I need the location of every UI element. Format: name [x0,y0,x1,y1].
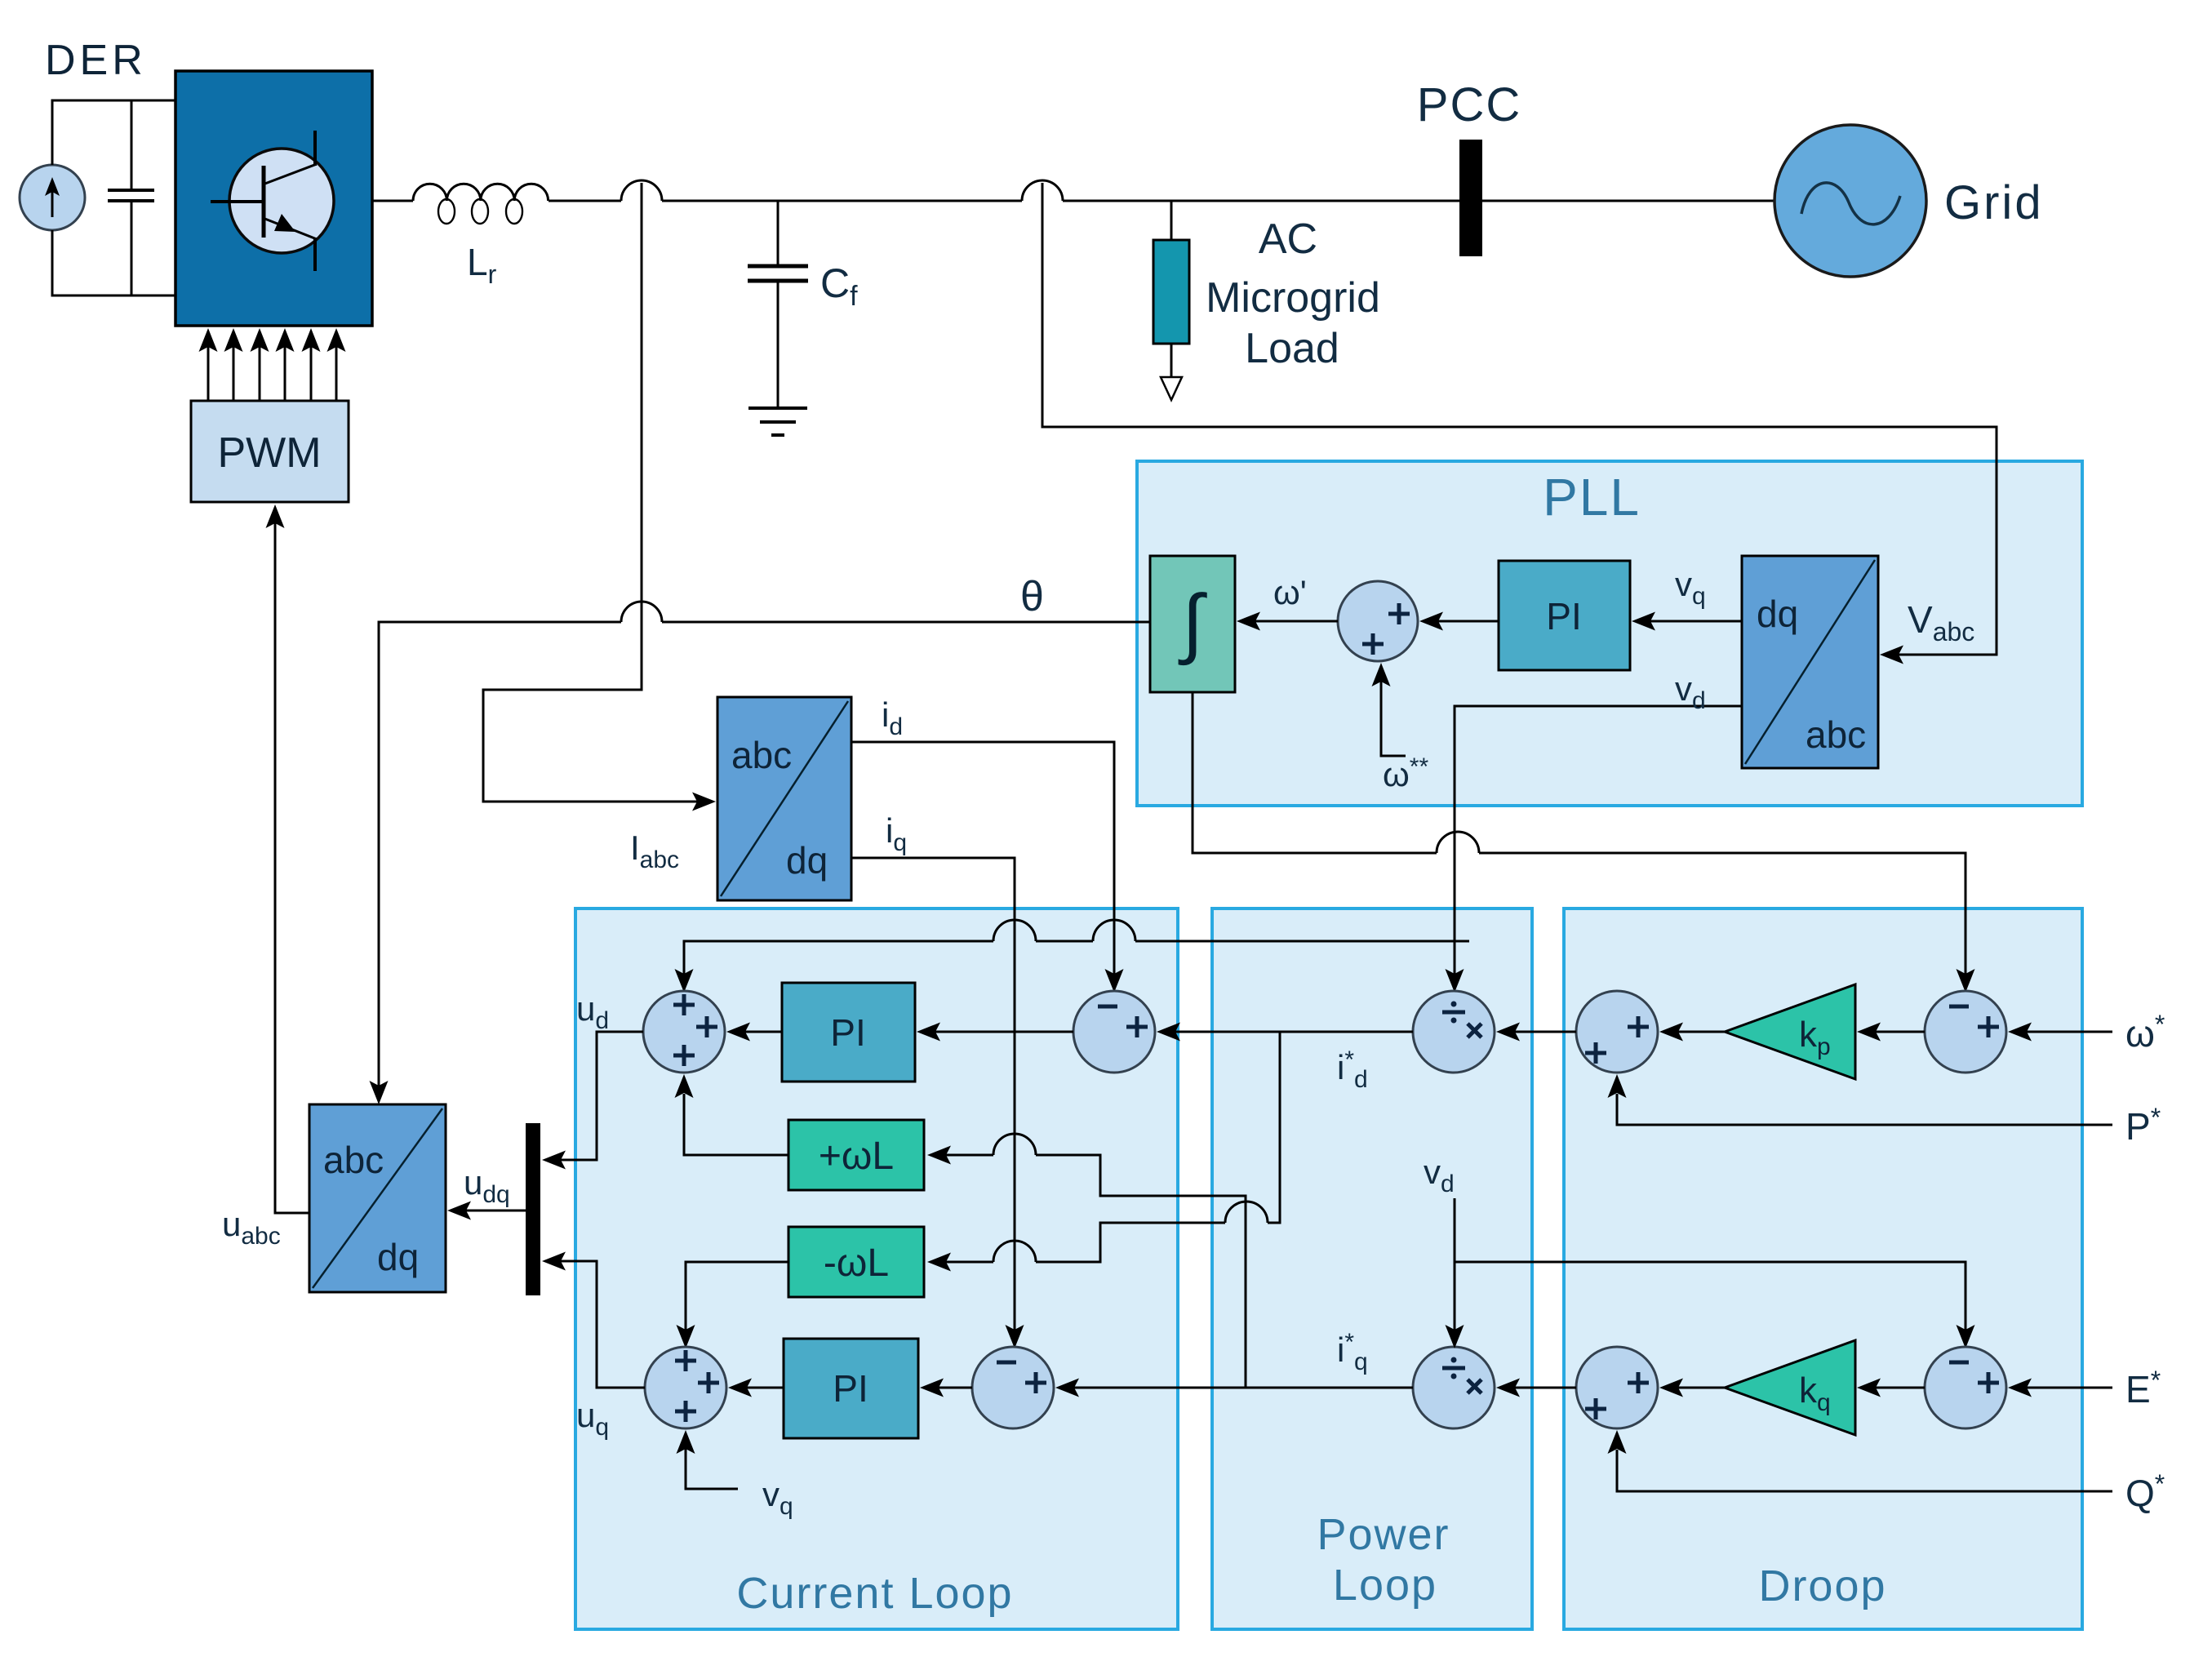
wire: source top lead [52,100,175,165]
svg-text:E*: E* [2125,1366,2161,1410]
d subtractor junction [1073,991,1155,1073]
wire: voltage tap down from main bus [1042,183,1997,655]
wire: d subtractor to PI d [917,1023,1073,1042]
wire: PI q to uq sum [728,1379,784,1397]
svg-text:∫: ∫ [1178,580,1207,666]
capacitor C1 (DC link) top lead [131,100,133,190]
svg-text:abc: abc [1806,713,1866,756]
capacitor Cf top lead [777,201,780,266]
svg-text:Power: Power [1317,1510,1450,1559]
transistor Q1 base bar [262,166,266,238]
svg-text:abc: abc [323,1139,384,1181]
arrowhead vd into divider [1446,969,1464,993]
wire: E-star input [2008,1379,2112,1397]
svg-text:id: id [882,695,903,740]
ud sum junction [643,991,725,1073]
transistor Q1 base lead [211,200,264,203]
svg-text:Iabc: Iabc [630,828,679,873]
PLL block container box [1137,461,2082,806]
wire: +wL output to ud sum bottom [675,1074,789,1155]
svg-text:-ωL: -ωL [824,1242,889,1285]
svg-text:PI: PI [830,1011,865,1054]
wire: main bus to PCC [1063,200,1459,202]
svg-text:θ: θ [1020,573,1044,620]
wire: PI d to ud sum [726,1023,782,1042]
wire: udq bus to uabc transform [447,1202,526,1220]
svg-text:PLL: PLL [1543,468,1641,526]
P sum junction [1576,991,1658,1073]
open arrow terminal of load [1161,377,1182,400]
wire: uq to udq bus [542,1252,645,1388]
arrowhead into current abc-dq transform [692,793,716,811]
svg-text:abc: abc [731,734,792,776]
wire: q subtractor to PI q [920,1379,972,1397]
hop: vd feed over iq line [993,920,1036,941]
hop: i*d branch over iq line [993,1241,1036,1262]
svg-text:Droop: Droop [1758,1561,1886,1610]
wire: kp to P sum [1659,1023,1725,1042]
Power Loop container box [1212,908,1532,1629]
wire: branch i*q to +wL [927,1146,1246,1388]
integrator block [1150,556,1235,692]
wire: vd into q divider and to E sum [1446,1198,1975,1348]
wire: omega subtractor to kp [1857,1023,1925,1042]
wire: AC microgrid load top lead [1170,201,1173,240]
hop: i*d branch over i*q branch [1225,1202,1268,1223]
wire: P sum to d divider [1496,1023,1576,1042]
svg-text:Microgrid: Microgrid [1206,274,1380,322]
-wL block [788,1227,924,1297]
kq gain triangle [1725,1340,1855,1435]
transistor Q1 emitter with arrow [263,214,317,271]
svg-text:dq: dq [1757,593,1798,635]
hop: voltage tap crossing on main bus [1022,180,1063,201]
svg-text:Grid: Grid [1944,176,2044,229]
inductor Lr coil [413,184,549,224]
arrowhead id into d subtractor [1105,969,1124,993]
wire: PCC to grid [1482,200,1774,202]
wire: vd from transform [1455,706,1742,988]
PCC breaker bar [1459,140,1482,256]
wire: main bus to second hop [662,200,1022,202]
inverter block (VSI) [175,71,372,326]
hop: omega line over vd [1437,832,1479,853]
capacitor C1 plates [108,190,154,201]
svg-text:P*: P* [2125,1103,2161,1148]
Q sum junction [1576,1347,1658,1428]
wire: vq from transform to PI [1632,612,1742,631]
wire: E subtractor to kq [1857,1379,1925,1397]
Current Loop container box [575,908,1178,1629]
wire: Q sum to q divider [1496,1379,1576,1397]
grid sine wave [1801,183,1900,224]
svg-text:AC: AC [1259,215,1317,263]
wire: theta output of integrator going left [379,622,1150,1099]
wire: i*q from divider to q subtractor [1055,1379,1413,1397]
wire: uabc from transform up to PWM [266,504,310,1213]
ground symbol [748,408,807,435]
svg-text:DER: DER [45,37,147,84]
wire: i*d from divider to d subtractor [1157,1023,1413,1042]
wire: current tap down from main bus [483,183,700,802]
svg-text:PI: PI [1546,595,1581,637]
wire: PI to PLL sum [1419,612,1499,631]
E droop subtractor junction [1925,1347,2006,1428]
wire: omega-ref into PLL sum [1372,663,1406,756]
current loop PI q block [784,1339,918,1438]
arrowhead theta into uabc transform [370,1081,389,1104]
wire: inverter output [372,200,413,202]
q subtractor junction [972,1347,1054,1428]
arrowhead vd feed into ud sum [675,969,694,993]
uabc abc-dq transform block [309,1104,446,1292]
svg-text:PCC: PCC [1417,78,1521,131]
wire: source bottom lead [52,230,175,295]
kp gain triangle [1725,984,1855,1079]
svg-text:ω': ω' [1273,573,1307,611]
arrowhead omega into droop sum [1957,969,1975,993]
current loop PI d block [782,983,915,1082]
wire: AC microgrid load bottom lead [1170,344,1173,377]
wire: omega from integrator to droop [1193,692,1965,988]
svg-text:Cf: Cf [820,260,858,312]
current abc-dq transform block [717,697,851,900]
grid source circle [1774,125,1926,277]
udq bus bar [526,1123,540,1295]
wire: omega-star input [2008,1023,2112,1042]
svg-text:dq: dq [786,839,828,882]
omega droop subtractor junction [1925,991,2006,1073]
wire: -wL output to uq sum top [677,1262,789,1348]
wire: main bus segment after coil [549,200,621,202]
hop: theta line over current tap [621,602,662,622]
wire: iq from transform [851,858,1015,1344]
capacitor C1 bottom lead [131,201,133,295]
uq sum junction [645,1347,726,1428]
capacitor Cf plates [748,266,808,281]
svg-text:Current Loop: Current Loop [736,1569,1013,1618]
AC Microgrid Load label [1206,215,1380,372]
svg-text:uabc: uabc [222,1205,281,1250]
arrowhead Vabc into dq-abc transform [1880,646,1903,664]
PWM gate arrows to inverter [199,328,346,401]
+wL block [788,1120,924,1190]
svg-text:Lr: Lr [467,241,497,289]
current source I1 arrow [45,177,60,217]
Droop container box [1564,908,2082,1629]
PLL PI block [1499,561,1630,670]
wire: branch i*d to -wL [927,1032,1280,1272]
capacitor Cf bottom lead [777,281,780,408]
divider-multiplier d junction [1413,991,1495,1073]
svg-text:dq: dq [377,1236,419,1278]
hop: i*q branch over iq line [993,1134,1036,1155]
PLL dq-abc transform block [1742,556,1878,768]
wire: vq into uq sum bottom [677,1430,739,1489]
arrowhead iq into q subtractor [1006,1325,1024,1348]
wire: PLL sum to integrator [1237,612,1338,631]
wire: kq to Q sum [1659,1379,1725,1397]
svg-text:Loop: Loop [1333,1561,1437,1610]
divider-multiplier q junction [1413,1347,1495,1428]
svg-text:iq: iq [886,811,907,856]
wire: vd feed across current loop to ud sum [684,941,1469,988]
svg-text:+ωL: +ωL [819,1135,894,1178]
PWM block [191,401,349,502]
hop: current tap crossing on main bus [621,180,662,201]
svg-text:ω*: ω* [2125,1010,2165,1055]
wire: Q-star input [1608,1430,2113,1491]
svg-text:PI: PI [833,1367,868,1410]
wire: ud to udq bus [542,1032,643,1170]
svg-text:udq: udq [464,1163,510,1208]
AC microgrid load resistor [1153,240,1189,344]
hop: vd feed over id line [1093,920,1135,941]
transistor Q1 collector [263,131,317,184]
PLL sum junction [1338,581,1418,661]
transistor Q1 circle [229,149,334,253]
svg-text:Q*: Q* [2125,1469,2165,1514]
wire: P-star input [1608,1074,2113,1125]
svg-text:Load: Load [1245,325,1339,372]
current source I1 circle [20,165,85,230]
svg-text:PWM: PWM [217,429,321,477]
wire: id from transform [851,742,1114,988]
